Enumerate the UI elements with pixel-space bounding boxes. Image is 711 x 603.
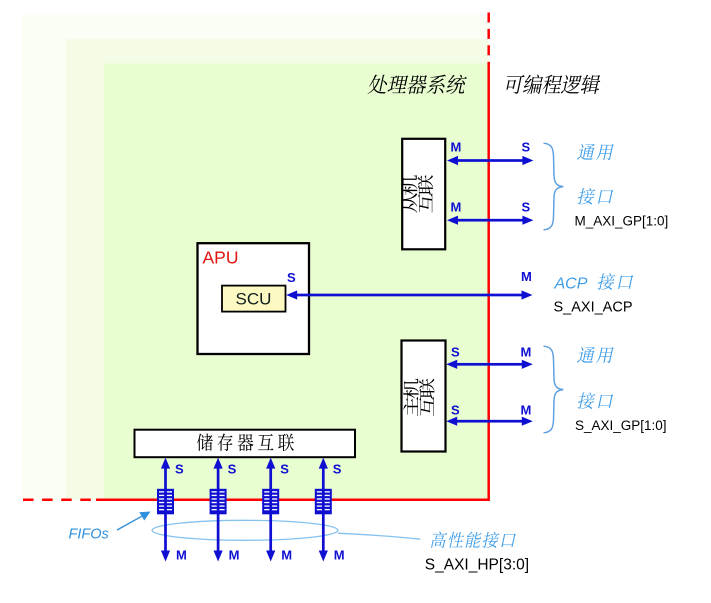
wire HP port 4 vertical arrow: [319, 458, 328, 562]
FIFO 3 symbol: [262, 489, 279, 515]
master interconnect label 主机互联: [403, 379, 434, 417]
svg-text:S: S: [228, 462, 237, 477]
brace top (GP master interfaces): [544, 143, 564, 230]
svg-text:M: M: [521, 403, 532, 418]
slave interconnect label 从机互联: [402, 175, 433, 213]
svg-text:S_AXI_HP[3:0]: S_AXI_HP[3:0]: [425, 556, 529, 573]
svg-text:S: S: [175, 462, 184, 477]
svg-text:S: S: [451, 403, 460, 418]
svg-text:S: S: [522, 200, 531, 215]
svg-text:SCU: SCU: [236, 290, 272, 309]
svg-text:S: S: [333, 462, 342, 477]
wire M_AXI_GP arrow 1: [447, 156, 533, 165]
callout ACP 接口: [597, 273, 634, 290]
APU box: [198, 243, 310, 354]
wire M_AXI_GP arrow 2: [447, 216, 533, 225]
svg-text:M: M: [229, 548, 240, 563]
wire ACP arrow SCU to PL: [286, 290, 532, 299]
FIFOs pointer arrow: [117, 516, 142, 530]
svg-text:S: S: [522, 140, 531, 155]
svg-text:S: S: [287, 270, 296, 285]
svg-text:S_AXI_GP[1:0]: S_AXI_GP[1:0]: [575, 418, 667, 433]
svg-text:S_AXI_ACP: S_AXI_ACP: [554, 300, 633, 316]
callout 高性能接口 (high performance ports): [430, 532, 517, 548]
memory interconnect box 储存器互联: [135, 430, 356, 458]
ellipse around FIFOs: [152, 520, 338, 540]
svg-text:ACP: ACP: [554, 276, 588, 293]
svg-text:M: M: [281, 548, 292, 563]
svg-text:M: M: [521, 345, 532, 360]
wire HP port 2 vertical arrow: [214, 458, 223, 562]
svg-text:M: M: [451, 200, 462, 215]
FIFO 2 symbol: [210, 489, 227, 515]
SCU box: [222, 286, 286, 312]
background outer pale rect: [22, 15, 489, 500]
svg-text:M_AXI_GP[1:0]: M_AXI_GP[1:0]: [575, 214, 669, 229]
callout 接口 (bottom): [577, 392, 614, 409]
wire HP port 3 vertical arrow: [266, 458, 275, 562]
svg-text:APU: APU: [203, 248, 239, 268]
callout 通用 (bottom): [577, 347, 614, 363]
callout line ellipse to 高性能接口: [338, 533, 421, 539]
PS/PL red boundary solid lines: [96, 63, 490, 500]
memory interconnect label 储存器互联: [197, 434, 294, 452]
brace bottom (GP slave interfaces): [544, 346, 564, 433]
wire S_AXI_GP arrow 2: [446, 417, 533, 426]
title 处理器系统 (Processor System): [367, 75, 467, 94]
FIFO 1 symbol: [157, 489, 174, 515]
FIFO 4 symbol: [315, 489, 332, 515]
svg-text:S: S: [451, 345, 460, 360]
processing-system green region: [104, 64, 489, 501]
master interconnect box 主机互联: [402, 341, 446, 452]
wire HP port 1 vertical arrow: [161, 458, 170, 562]
callout 通用 (top): [577, 144, 614, 160]
svg-text:M: M: [334, 548, 345, 563]
red dashed boundary left: [23, 499, 96, 502]
slave interconnect box 从机互联: [402, 139, 445, 250]
svg-text:FIFOs: FIFOs: [69, 527, 109, 543]
title 可编程逻辑 (Programmable Logic): [503, 75, 602, 94]
svg-text:M: M: [451, 140, 462, 155]
red dashed boundary top: [487, 13, 490, 64]
svg-text:M: M: [176, 548, 187, 563]
background middle pale rect: [66, 39, 489, 500]
svg-text:M: M: [521, 269, 532, 284]
callout 接口 (top): [577, 188, 614, 205]
svg-text:S: S: [280, 462, 289, 477]
wire S_AXI_GP arrow 1: [446, 360, 533, 369]
